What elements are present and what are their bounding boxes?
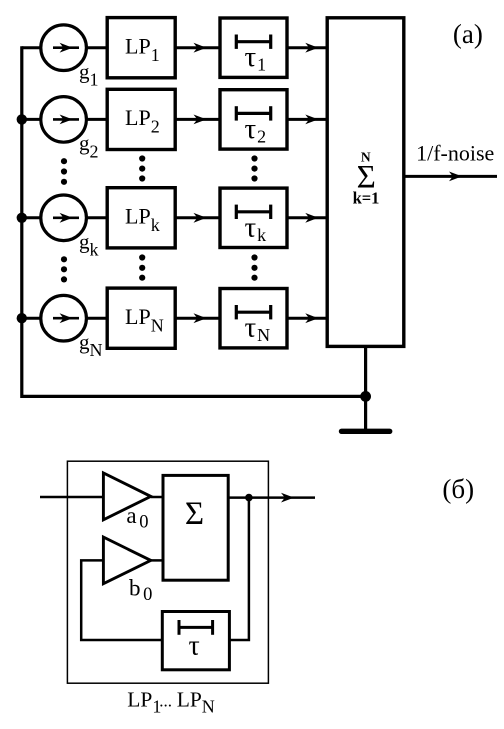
- block LP1: [107, 18, 175, 78]
- current source g2 (circle with arrow): [41, 97, 87, 143]
- wire left-bus and bottom return: [22, 46, 366, 396]
- current source gN (circle with arrow): [41, 295, 87, 341]
- arrowhead inside gk: [60, 213, 73, 223]
- wire a0 to sigma: [151, 496, 163, 499]
- delay block tauk: [220, 188, 287, 247]
- wire tauN to summer: [287, 317, 327, 320]
- wire input to a0: [40, 496, 103, 499]
- ellipsis dots between rows: [61, 158, 67, 164]
- wire summer output: [404, 175, 497, 178]
- arrowhead LPk to tauk: [194, 213, 207, 223]
- current source g1 (circle with arrow): [41, 25, 87, 71]
- svg-text:k=1: k=1: [353, 188, 380, 207]
- delay symbol in tau2: [236, 106, 270, 120]
- svg-text:...: ...: [159, 691, 172, 710]
- node junction bus row N: [17, 313, 27, 323]
- wire summer to ground: [364, 346, 367, 429]
- svg-text:1/f-noise: 1/f-noise: [416, 141, 494, 166]
- node junction feedback tap: [245, 494, 253, 502]
- wire gk to LPk: [86, 216, 107, 219]
- node junction bus row k: [17, 213, 27, 223]
- wire LPk to tauk: [175, 216, 220, 219]
- wire LP2 to tau2: [175, 118, 220, 121]
- wire tau to b0: [81, 560, 162, 640]
- arrowhead inside gN: [60, 313, 73, 323]
- wire g1 to LP1: [86, 46, 107, 49]
- wire bus to source g1: [22, 46, 41, 49]
- amplifier b0 (triangle): [103, 537, 150, 584]
- node junction bus row 2: [17, 114, 27, 124]
- delay block tauN: [220, 289, 287, 348]
- wire tau2 to summer: [287, 118, 327, 121]
- arrowhead tau1 to summer: [305, 43, 318, 53]
- arrowhead LP1 to tau1: [194, 43, 207, 53]
- delay block tau2: [220, 90, 287, 149]
- svg-text:τ: τ: [189, 631, 200, 662]
- delay symbol in tauN: [236, 305, 270, 319]
- enclosure box of LP filter detail: [67, 461, 268, 683]
- summer block U1 (sigma): [327, 18, 404, 347]
- wire sigma output: [228, 496, 315, 499]
- delay block tau in LP detail: [162, 612, 229, 670]
- block LPN: [107, 288, 175, 348]
- wire g2 to LP2: [86, 118, 107, 121]
- arrowhead tau2 to summer: [305, 115, 318, 125]
- delay block tau1: [220, 18, 287, 77]
- wire tauk to summer: [287, 216, 327, 219]
- arrowhead LPN to tauN: [194, 313, 207, 323]
- wire bus to source gN: [22, 317, 41, 320]
- wire gN to LPN: [86, 317, 107, 320]
- wire bus to source gk: [22, 216, 41, 219]
- wire LP1 to tau1: [175, 46, 220, 49]
- block LP2: [107, 89, 175, 149]
- delay symbol in LP detail tau: [179, 620, 213, 635]
- amplifier a0 (triangle): [103, 473, 150, 520]
- wire bus to source g2: [22, 118, 41, 121]
- arrowhead output: [449, 172, 462, 182]
- arrowhead inside g1: [60, 43, 73, 53]
- svg-text:(б): (б): [442, 474, 474, 504]
- svg-text:(а): (а): [453, 19, 483, 49]
- wire LPN to tauN: [175, 317, 220, 320]
- svg-text:Σ: Σ: [185, 496, 204, 532]
- delay symbol in tau1: [236, 35, 270, 49]
- current source gk (circle with arrow): [41, 195, 87, 241]
- arrowhead LP2 to tau2: [194, 115, 207, 125]
- wire b0 to sigma: [151, 559, 163, 562]
- arrowhead tauk to summer: [305, 213, 318, 223]
- arrowhead LP detail output: [281, 493, 294, 503]
- delay symbol in tauk: [236, 205, 270, 219]
- summer block (sigma) in LP detail: [163, 475, 228, 580]
- wire tau1 to summer: [287, 46, 327, 49]
- wire feedback down to tau: [229, 498, 249, 640]
- arrowhead inside g2: [60, 115, 73, 125]
- arrowhead tauN to summer: [305, 313, 318, 323]
- block LPk: [107, 188, 175, 248]
- ground: [342, 429, 390, 434]
- node junction at ground return: [360, 391, 371, 402]
